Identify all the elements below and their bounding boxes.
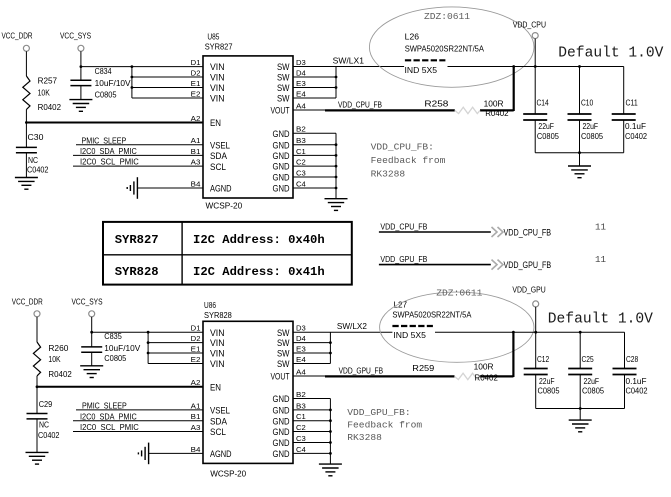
ellipse callout bottom [380, 287, 534, 362]
svg-text:VDD_GPU: VDD_GPU [512, 285, 545, 294]
svg-text:VOUT: VOUT [271, 372, 290, 382]
svg-text:PMIC_SLEEP: PMIC_SLEEP [82, 136, 127, 145]
svg-text:GND: GND [273, 406, 290, 416]
wire PMIC_SLEEP [76, 136, 203, 145]
svg-text:C30: C30 [28, 133, 44, 142]
svg-text:D1: D1 [191, 324, 201, 333]
svg-text:L27: L27 [393, 300, 407, 309]
svg-text:C1: C1 [296, 147, 306, 156]
svg-text:ZDZ:0611: ZDZ:0611 [424, 11, 470, 22]
capacitor C12 [524, 332, 560, 408]
svg-text:B3: B3 [296, 401, 306, 410]
wire SW/LX1 net [293, 56, 404, 98]
wire I2C0_SCL_PMIC bottom [73, 423, 203, 432]
text Default 1.0V [558, 46, 663, 62]
svg-text:VCC_DDR: VCC_DDR [2, 32, 33, 41]
svg-text:I2C0_SDA_PMIC: I2C0_SDA_PMIC [80, 147, 137, 156]
resistor R258 [424, 99, 509, 118]
svg-text:C0402: C0402 [625, 132, 647, 141]
svg-text:VOUT: VOUT [271, 106, 290, 116]
svg-text:11: 11 [595, 222, 607, 233]
svg-text:WCSP-20: WCSP-20 [210, 470, 246, 479]
svg-text:U85: U85 [207, 32, 219, 41]
pin numbers U86 right [296, 324, 306, 454]
svg-text:D2: D2 [191, 334, 201, 343]
wire [80, 51, 83, 80]
svg-text:I2C0_SCL_PMIC: I2C0_SCL_PMIC [80, 423, 139, 432]
svg-text:E4: E4 [296, 355, 306, 364]
svg-text:GND: GND [273, 394, 290, 404]
ground [325, 199, 348, 211]
svg-text:D2: D2 [191, 68, 201, 77]
svg-text:VCC_DDR: VCC_DDR [12, 297, 43, 306]
svg-text:SWPA5020SR22NT/5A: SWPA5020SR22NT/5A [392, 311, 471, 320]
svg-text:SW/LX2: SW/LX2 [337, 322, 367, 331]
svg-text:C0805: C0805 [537, 132, 559, 141]
op-amp U86 SYR828 [203, 301, 293, 479]
svg-text:C2: C2 [296, 423, 306, 432]
node EN junction bottom [36, 385, 39, 388]
svg-text:R0402: R0402 [48, 370, 72, 379]
svg-text:22uF: 22uF [584, 377, 600, 386]
ground [26, 452, 49, 464]
svg-text:GND: GND [273, 173, 290, 183]
svg-text:A2: A2 [191, 114, 201, 123]
svg-text:EN: EN [210, 383, 221, 393]
wire [25, 51, 27, 76]
wire SW/LX2 net [293, 322, 392, 364]
svg-text:A1: A1 [191, 136, 201, 145]
svg-text:GND: GND [273, 151, 290, 161]
svg-text:SCL: SCL [210, 427, 226, 437]
svg-text:R0402: R0402 [485, 109, 509, 118]
capacitor C11 [612, 67, 648, 153]
svg-text:C11: C11 [626, 99, 639, 108]
svg-text:VIN: VIN [210, 83, 225, 93]
svg-text:RK3288: RK3288 [371, 168, 406, 179]
capacitor C10 [568, 67, 604, 153]
ground [15, 178, 38, 190]
svg-text:RK3288: RK3288 [347, 432, 382, 443]
svg-text:IND 5X5: IND 5X5 [405, 66, 438, 75]
svg-text:A4: A4 [296, 367, 306, 376]
wire [36, 419, 38, 453]
svg-text:C14: C14 [537, 99, 550, 108]
svg-text:VIN: VIN [210, 94, 225, 104]
svg-text:AGND: AGND [210, 184, 232, 194]
svg-text:VIN: VIN [210, 328, 225, 338]
svg-text:VSEL: VSEL [210, 406, 230, 416]
wire [149, 452, 203, 454]
svg-text:0.1uF: 0.1uF [626, 377, 647, 386]
ground [80, 366, 103, 378]
svg-text:R0402: R0402 [475, 374, 499, 383]
resistor R257 [23, 76, 62, 112]
wire [91, 352, 93, 366]
wire VDD_GPU_FB net [293, 332, 513, 377]
svg-text:SYR828: SYR828 [204, 311, 232, 320]
wire cap bottom rail [535, 151, 624, 166]
svg-text:C0805: C0805 [581, 132, 603, 141]
svg-text:B1: B1 [191, 412, 201, 421]
svg-text:C25: C25 [582, 355, 595, 364]
svg-text:B4: B4 [191, 445, 201, 454]
svg-text:C0402: C0402 [626, 387, 648, 396]
svg-text:VDD_GPU_FB: VDD_GPU_FB [380, 255, 427, 264]
svg-text:VDD_CPU_FB: VDD_CPU_FB [338, 101, 382, 110]
resistor R260 [33, 342, 72, 379]
svg-text:SW/LX1: SW/LX1 [333, 56, 365, 65]
svg-text:GND: GND [273, 140, 290, 150]
ground [319, 464, 342, 476]
wire cap bottom rail bottom [536, 407, 625, 420]
svg-text:SYR827: SYR827 [205, 42, 233, 51]
svg-text:10uF/10V: 10uF/10V [104, 344, 141, 353]
node VDD_GPU_FB connector [379, 254, 607, 270]
svg-text:E4: E4 [296, 89, 306, 98]
svg-text:C835: C835 [104, 332, 122, 341]
svg-text:A3: A3 [191, 423, 201, 432]
wire VIN net [81, 65, 203, 98]
text Default 1.0V bottom [548, 312, 653, 328]
svg-text:ZDZ:0611: ZDZ:0611 [436, 287, 482, 298]
svg-text:C4: C4 [296, 445, 306, 454]
capacitor C835 [81, 332, 141, 363]
svg-text:A1: A1 [191, 401, 201, 410]
svg-text:SW: SW [277, 62, 290, 72]
svg-text:22uF: 22uF [538, 122, 554, 131]
svg-text:SWPA5020SR22NT/5A: SWPA5020SR22NT/5A [405, 44, 485, 53]
svg-text:10uF/10V: 10uF/10V [95, 79, 132, 88]
ellipse callout top [369, 7, 534, 87]
power VCC_DDR bottom [12, 297, 43, 317]
svg-text:AGND: AGND [210, 449, 232, 459]
svg-text:GND: GND [273, 427, 290, 437]
svg-text:I2C0_SCL_PMIC: I2C0_SCL_PMIC [80, 158, 139, 167]
svg-text:I2C Address: 0x40h: I2C Address: 0x40h [193, 233, 325, 247]
svg-text:R257: R257 [38, 77, 58, 86]
node VDD_CPU_FB connector [379, 222, 607, 238]
svg-text:100R: 100R [474, 363, 494, 372]
svg-text:SW: SW [277, 83, 290, 93]
svg-text:PMIC_SLEEP: PMIC_SLEEP [82, 402, 127, 411]
capacitor C28 [613, 332, 648, 408]
svg-text:C3: C3 [296, 434, 306, 443]
ground [569, 420, 592, 432]
svg-text:VDD_GPU_FB: VDD_GPU_FB [504, 260, 552, 270]
svg-text:E1: E1 [191, 79, 201, 88]
svg-text:C4: C4 [296, 179, 306, 188]
svg-text:SDA: SDA [210, 151, 227, 161]
svg-text:VIN: VIN [210, 349, 225, 359]
svg-text:R258: R258 [424, 99, 449, 108]
wire I2C0_SCL_PMIC [73, 158, 203, 167]
svg-text:C1: C1 [296, 412, 306, 421]
svg-text:C29: C29 [39, 400, 53, 409]
svg-text:R259: R259 [412, 364, 434, 373]
note VDD_GPU_FB feedback [347, 407, 422, 443]
svg-text:VDD_CPU_FB:: VDD_CPU_FB: [371, 141, 434, 152]
svg-text:D4: D4 [296, 68, 306, 77]
svg-text:C3: C3 [296, 168, 306, 177]
svg-text:EN: EN [210, 118, 221, 128]
svg-text:SW: SW [277, 328, 290, 338]
svg-text:GND: GND [273, 438, 290, 448]
svg-text:I2C0_SDA_PMIC: I2C0_SDA_PMIC [80, 412, 137, 421]
svg-text:D1: D1 [191, 58, 201, 67]
wire VDD_CPU rail [448, 65, 624, 68]
capacitor C14 [523, 67, 559, 153]
svg-text:A3: A3 [191, 158, 201, 167]
node EN junction [25, 121, 28, 124]
svg-text:A2: A2 [191, 378, 201, 387]
power VCC_DDR [2, 32, 33, 52]
svg-text:E2: E2 [191, 355, 201, 364]
svg-text:E1: E1 [191, 344, 201, 353]
svg-text:C2: C2 [296, 158, 306, 167]
svg-text:VDD_CPU: VDD_CPU [513, 20, 546, 29]
table I2C addresses [103, 222, 352, 285]
svg-text:GND: GND [273, 129, 290, 139]
svg-text:0.1uF: 0.1uF [625, 122, 646, 131]
ground [568, 166, 591, 178]
svg-text:C0402: C0402 [27, 166, 49, 175]
inductor L27 [392, 300, 471, 340]
wire GND bus bottom [293, 399, 332, 465]
svg-text:U86: U86 [204, 301, 216, 310]
svg-text:Feedback from: Feedback from [371, 155, 446, 166]
wire VDD_GPU rail [435, 331, 625, 334]
svg-text:C0805: C0805 [95, 90, 117, 99]
wire EN net [26, 122, 203, 124]
svg-text:10K: 10K [38, 88, 51, 97]
svg-text:L26: L26 [405, 32, 420, 41]
svg-text:A4: A4 [296, 101, 306, 110]
svg-text:VIN: VIN [210, 62, 225, 72]
wire [137, 187, 203, 189]
svg-text:SYR827: SYR827 [115, 233, 159, 247]
svg-text:C834: C834 [95, 67, 112, 76]
svg-text:E3: E3 [296, 344, 306, 353]
svg-text:B3: B3 [296, 136, 306, 145]
wire [80, 86, 82, 100]
wire VIN net bottom [92, 331, 203, 364]
wire [25, 153, 27, 178]
svg-text:C28: C28 [626, 355, 639, 364]
svg-text:VDD_CPU_FB: VDD_CPU_FB [504, 227, 552, 237]
svg-text:11: 11 [595, 254, 607, 265]
svg-text:VIN: VIN [210, 338, 225, 348]
power VDD_GPU [512, 285, 545, 332]
wire EN net bottom [37, 386, 203, 388]
power VCC_SYS bottom [72, 297, 103, 317]
svg-text:VCC_SYS: VCC_SYS [72, 297, 103, 306]
svg-text:C0402: C0402 [38, 431, 60, 440]
svg-text:SW: SW [277, 94, 290, 104]
svg-text:R0402: R0402 [38, 103, 62, 112]
svg-text:C0805: C0805 [582, 387, 604, 396]
svg-text:VIN: VIN [210, 359, 225, 369]
svg-text:SW: SW [277, 359, 290, 369]
svg-text:WCSP-20: WCSP-20 [206, 202, 243, 211]
wire PMIC_SLEEP bottom [76, 402, 203, 411]
svg-text:NC: NC [39, 420, 49, 429]
op-amp U85 SYR827 [203, 32, 293, 210]
svg-text:IND 5X5: IND 5X5 [393, 331, 426, 340]
ground [69, 100, 92, 112]
svg-text:R260: R260 [48, 344, 68, 353]
wire I2C0_SDA_PMIC bottom [73, 412, 203, 421]
svg-text:22uF: 22uF [583, 122, 599, 131]
wire VDD_CPU_FB net [293, 67, 514, 112]
svg-text:SW: SW [277, 338, 290, 348]
wire I2C0_SDA_PMIC [73, 147, 203, 156]
svg-text:VDD_GPU_FB: VDD_GPU_FB [339, 367, 384, 376]
svg-text:SW: SW [277, 349, 290, 359]
svg-text:10K: 10K [48, 355, 61, 364]
svg-text:C0805: C0805 [104, 354, 126, 363]
svg-text:E2: E2 [191, 89, 201, 98]
svg-text:B4: B4 [191, 179, 201, 188]
capacitor C30 [16, 133, 49, 175]
capacitor C29 [27, 400, 60, 440]
svg-text:C0805: C0805 [538, 387, 560, 396]
svg-text:VDD_GPU_FB:: VDD_GPU_FB: [347, 407, 410, 418]
svg-text:C10: C10 [581, 99, 594, 108]
resistor R259 [412, 363, 498, 383]
svg-text:B2: B2 [296, 125, 306, 134]
svg-text:VIN: VIN [210, 73, 225, 83]
svg-text:SDA: SDA [210, 416, 227, 426]
inductor L26 [405, 32, 485, 75]
power VDD_CPU [513, 20, 546, 66]
wire [36, 376, 38, 414]
svg-text:SCL: SCL [210, 162, 226, 172]
svg-text:GND: GND [273, 449, 290, 459]
power VCC_SYS [60, 32, 91, 52]
ground AGND bottom [138, 443, 148, 465]
svg-text:C12: C12 [537, 355, 550, 364]
svg-text:22uF: 22uF [539, 377, 555, 386]
capacitor C25 [568, 332, 604, 408]
svg-text:VDD_CPU_FB: VDD_CPU_FB [380, 223, 427, 232]
wire [90, 317, 93, 347]
svg-text:100R: 100R [484, 99, 504, 108]
capacitor C834 [70, 67, 131, 99]
svg-text:GND: GND [273, 184, 290, 194]
svg-text:SW: SW [277, 73, 290, 83]
svg-text:VCC_SYS: VCC_SYS [60, 32, 91, 41]
svg-text:Default 1.0V: Default 1.0V [558, 46, 663, 62]
pin numbers U85 right [296, 58, 306, 189]
svg-text:SYR828: SYR828 [115, 265, 159, 279]
wire [36, 317, 38, 342]
svg-text:D3: D3 [296, 58, 306, 67]
svg-text:Feedback from: Feedback from [347, 420, 422, 431]
ground AGND [127, 177, 137, 199]
svg-text:E3: E3 [296, 79, 306, 88]
wire GND bus [293, 133, 337, 199]
svg-text:VSEL: VSEL [210, 140, 230, 150]
pin numbers U86 left [191, 324, 201, 454]
svg-text:D3: D3 [296, 324, 306, 333]
note VDD_CPU_FB feedback [371, 141, 446, 179]
svg-text:D4: D4 [296, 334, 306, 343]
svg-text:NC: NC [28, 156, 38, 165]
wire [25, 110, 27, 148]
svg-text:B1: B1 [191, 147, 201, 156]
svg-text:I2C Address: 0x41h: I2C Address: 0x41h [193, 265, 325, 279]
svg-text:Default 1.0V: Default 1.0V [548, 312, 653, 328]
svg-text:GND: GND [273, 416, 290, 426]
pin numbers U85 left [191, 58, 201, 189]
svg-text:B2: B2 [296, 390, 306, 399]
svg-text:GND: GND [273, 162, 290, 172]
